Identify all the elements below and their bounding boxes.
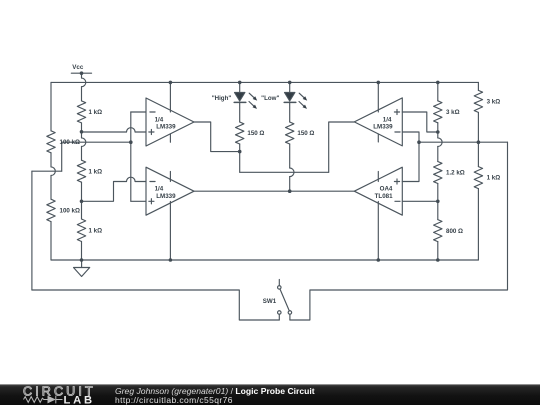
switch SW1 throw terminal left [278, 311, 282, 315]
wire ladder segment [81, 147, 83, 161]
U4 plus input wire from reference node [402, 142, 419, 181]
junction top rail / LED D1 [238, 81, 242, 85]
svg-text:OA4: OA4 [380, 186, 393, 193]
svg-text:800 Ω: 800 Ω [446, 228, 463, 235]
wire switch right lead [289, 314, 291, 320]
wire R7 down with hop [289, 144, 291, 168]
wire probe net left horizontal [32, 170, 62, 172]
wire ladder top segment [81, 87, 83, 101]
U4 plus glyph [394, 179, 399, 184]
U3 plus glyph [394, 109, 399, 114]
svg-text:http://circuitlab.com/c55qr76: http://circuitlab.com/c55qr76 [115, 395, 233, 405]
U2 V- pin to ground rail [169, 202, 171, 261]
svg-text:1/4: 1/4 [383, 116, 392, 123]
resistor R7 150 ohm [286, 122, 294, 144]
ground symbol [81, 260, 83, 268]
LED D2 light arrows [299, 93, 304, 97]
wire ground rail [51, 259, 478, 261]
junction ground rail / ladder [80, 258, 84, 262]
wire High net down [239, 152, 241, 173]
resistor R5 100k lower [47, 199, 55, 221]
wire 3k top lead [437, 82, 439, 100]
wire left rail segment [50, 153, 52, 167]
U4 minus input wire [402, 200, 438, 202]
svg-text:100 kΩ: 100 kΩ [60, 139, 80, 146]
U2 inverting input wire from ladder [82, 182, 127, 202]
resistor R10 800 ohm [434, 220, 442, 242]
svg-text:TL081: TL081 [375, 193, 393, 200]
wire probe net drop [61, 142, 63, 171]
node Vcc terminal [80, 71, 84, 75]
junction ladder / U2- [80, 200, 84, 204]
svg-text:1 kΩ: 1 kΩ [487, 175, 501, 182]
svg-text:"Low": "Low" [261, 95, 279, 102]
wire High net across [240, 171, 329, 173]
wire top rail [51, 81, 478, 83]
svg-text:3 kΩ: 3 kΩ [487, 99, 501, 106]
LED D2 body [285, 93, 295, 102]
node U1- vertical to probe net [130, 112, 132, 201]
junction reference net / R11 R12 [477, 140, 481, 144]
wire reference net [419, 141, 508, 143]
U4 V+ pin stub [377, 172, 379, 182]
U1 output wire [194, 122, 240, 152]
wire R9 to node [437, 184, 439, 202]
junction top rail / LED D2 [288, 81, 292, 85]
wire node to R12 [477, 142, 479, 166]
wire 3k2 top lead [477, 82, 479, 90]
wire ladder hop over probe wire [82, 138, 86, 147]
svg-text:3 kΩ: 3 kΩ [446, 109, 460, 116]
svg-text:LAB: LAB [64, 394, 95, 405]
resistor R9 1.2k [434, 162, 442, 184]
U1 plus glyph [149, 129, 154, 134]
LED D1 body [235, 93, 245, 102]
power symbol Vcc [71, 72, 91, 74]
U2 minus glyph [150, 181, 155, 183]
U1 V+ pin to top rail [169, 82, 171, 112]
svg-text:150 Ω: 150 Ω [247, 130, 264, 137]
U3 V- pin stub [377, 134, 379, 142]
U1 inverting input wire [131, 111, 146, 113]
switch SW1 lever [280, 289, 289, 311]
svg-text:1/4: 1/4 [155, 186, 164, 193]
junction ground rail / U2 V- [169, 258, 173, 262]
svg-text:1 kΩ: 1 kΩ [89, 228, 103, 235]
wire left rail top [50, 82, 52, 130]
wire LED D2 to resistor [289, 102, 291, 122]
resistor R2 1k ladder top [77, 101, 85, 123]
resistor R8 3k [434, 101, 442, 123]
LED D1 light arrows [249, 93, 254, 97]
wire R8 to node [437, 123, 439, 138]
op-amp U3 1/4 LM339 body [354, 98, 402, 146]
U3 plus input wire [402, 112, 438, 132]
wire LED D1 to resistor [239, 102, 241, 122]
svg-text:1/4: 1/4 [155, 116, 164, 123]
junction probe net / U1- U2+ [129, 140, 133, 144]
resistor R6 150 ohm [236, 122, 244, 144]
U4 minus glyph [395, 200, 400, 202]
wire ladder to ground rail [81, 242, 83, 261]
switch SW1 common terminal [278, 286, 282, 290]
resistor R12 1k [474, 167, 482, 189]
wire R6 to node [239, 144, 241, 152]
U3 V+ pin to top rail [377, 82, 379, 112]
U1 V- pin stub [169, 134, 171, 142]
wire left rail segment [50, 176, 52, 200]
junction ground rail / U4 V- [377, 258, 381, 262]
switch SW1 common stub [278, 280, 280, 286]
junction top rail / U1 V+ [169, 81, 173, 85]
op-amp U2 1/4 LM339 body [146, 167, 194, 215]
LED D1 "High" anode wire [239, 82, 241, 92]
resistor R3 1k ladder mid [77, 160, 85, 182]
junction ladder / U1+ [80, 130, 84, 134]
junction top rail / U3 V+ [377, 81, 381, 85]
junction U2 out / D2 / U4 out [288, 189, 292, 193]
wire R12 to ground rail [477, 189, 479, 260]
svg-text:1 kΩ: 1 kΩ [89, 168, 103, 175]
wire ladder segment [81, 182, 83, 219]
op-amp U1 1/4 LM339 body [146, 98, 194, 146]
LED D2 "Low" anode wire [289, 82, 291, 92]
wire switch left lead [278, 314, 280, 320]
junction R9 R10 / U4- [436, 200, 440, 204]
wire left rail hop [51, 167, 55, 176]
svg-text:Vcc: Vcc [72, 64, 84, 71]
junction U3- reference net [417, 140, 421, 144]
resistor R4 1k ladder bottom [77, 219, 85, 242]
svg-text:1 kΩ: 1 kΩ [89, 109, 103, 116]
svg-text:150 Ω: 150 Ω [297, 130, 314, 137]
svg-text:LM339: LM339 [156, 193, 176, 200]
junction U1 out / R6 [238, 150, 242, 154]
wire hop over reference net [438, 138, 442, 147]
U2 V+ pin stub [169, 172, 171, 182]
op-amp U4 OA4 TL081 body [354, 167, 402, 215]
U1 non-inverting input wire [82, 131, 127, 133]
wire probe net horizontal [62, 141, 131, 143]
junction U3+ / R8 R9 [436, 130, 440, 134]
svg-text:LM339: LM339 [156, 124, 176, 131]
wire probe net outer left drop [31, 171, 33, 290]
wire node to R10 [437, 201, 439, 219]
U3 minus glyph [395, 131, 400, 133]
switch SW1 throw terminal right [288, 311, 292, 315]
wire R11 to reference node [477, 112, 479, 142]
U1 minus glyph [150, 111, 155, 113]
U2 non-inverting input wire [131, 200, 146, 202]
svg-text:1.2 kΩ: 1.2 kΩ [446, 170, 465, 177]
U4 V- pin to ground rail [377, 202, 379, 261]
junction top rail / R8 [436, 81, 440, 85]
resistor R1 100k upper [47, 131, 55, 153]
junction ground rail / R10 [436, 258, 440, 262]
resistor R11 3k [474, 90, 482, 112]
wire left rail to ground rail [50, 222, 52, 260]
svg-text:100 kΩ: 100 kΩ [60, 208, 80, 215]
logo resistor-diode doodle [24, 396, 63, 404]
U3 minus input wire [402, 132, 419, 142]
svg-text:"High": "High" [212, 95, 232, 102]
svg-text:SW1: SW1 [263, 298, 277, 305]
wire R10 to ground rail [437, 242, 439, 260]
U2 plus glyph [149, 199, 154, 204]
wire High net up to U3 output [329, 122, 355, 172]
wire ladder mid segment [81, 123, 83, 138]
wire right loop [290, 142, 508, 320]
wire bottom loop left [32, 290, 279, 320]
svg-text:LM339: LM339 [373, 124, 393, 131]
U2 output wire to LED2 node [194, 190, 354, 192]
wire Vcc hop over top rail [82, 78, 86, 87]
